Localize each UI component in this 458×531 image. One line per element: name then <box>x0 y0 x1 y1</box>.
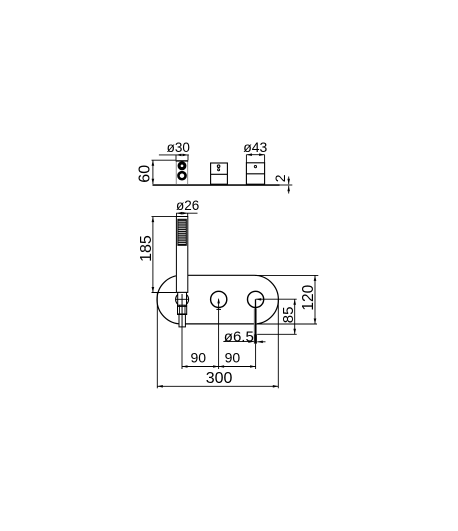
dimension ø6.5 <box>223 328 265 345</box>
svg-text:85: 85 <box>280 307 297 324</box>
mixer knob (side view) <box>211 163 228 184</box>
volume knob ø43 (side view) <box>246 163 264 184</box>
dimension 185 <box>138 217 177 293</box>
svg-text:ø6.5: ø6.5 <box>224 328 254 345</box>
dimension 300 <box>157 293 278 388</box>
wall plate (side view) <box>153 184 280 186</box>
dimension ø30 <box>159 140 190 160</box>
svg-text:ø43: ø43 <box>243 139 267 155</box>
hand-shower holder (side view) <box>176 161 189 184</box>
svg-text:ø30: ø30 <box>167 140 190 155</box>
dimension 85 <box>256 299 298 334</box>
svg-text:300: 300 <box>206 370 233 387</box>
dimension 90 (left) <box>182 299 219 369</box>
svg-text:ø26: ø26 <box>176 198 199 213</box>
mixer knob (front view) <box>211 291 227 309</box>
svg-text:2: 2 <box>272 174 288 182</box>
dimension 90 (right) <box>219 344 256 369</box>
diverter knob with lever (front view) <box>248 291 264 343</box>
dimension ø43 <box>243 139 267 163</box>
svg-text:185: 185 <box>138 235 155 262</box>
oval wall plate (front view) <box>157 275 278 324</box>
svg-text:120: 120 <box>300 284 317 310</box>
dimension ø26 <box>176 198 199 217</box>
hand shower (front view) <box>176 217 189 327</box>
dimension 60 <box>136 160 176 184</box>
dimension 120 <box>255 275 318 324</box>
dimension 2 (plate thickness) <box>272 174 293 193</box>
svg-text:90: 90 <box>191 350 207 366</box>
svg-text:60: 60 <box>136 165 153 183</box>
svg-text:90: 90 <box>225 350 241 366</box>
